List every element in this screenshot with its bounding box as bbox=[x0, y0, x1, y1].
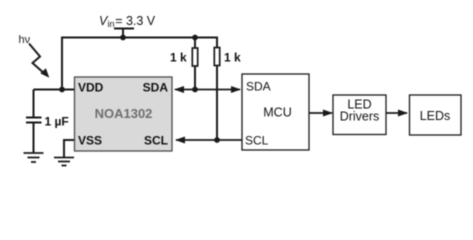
svg-text:1 µF: 1 µF bbox=[45, 115, 69, 129]
svg-text:Drivers: Drivers bbox=[340, 110, 380, 124]
ground (VSS) bbox=[54, 158, 74, 166]
arrowhead into LED Drivers bbox=[323, 110, 333, 117]
resistor R2 lead bottom bbox=[216, 66, 218, 141]
wire VSS bbox=[64, 140, 75, 158]
wire left vertical bbox=[61, 37, 63, 90]
svg-text:1 k: 1 k bbox=[170, 51, 187, 65]
node Vin junction bbox=[120, 35, 126, 41]
svg-text:SDA: SDA bbox=[246, 80, 271, 94]
svg-text:= 3.3 V: = 3.3 V bbox=[115, 14, 156, 28]
node R1 rail junction bbox=[192, 35, 198, 41]
resistor R2 body bbox=[214, 48, 219, 66]
light ray arrow bbox=[29, 44, 44, 73]
arrowhead SDA right bbox=[231, 86, 241, 93]
svg-text:MCU: MCU bbox=[263, 106, 291, 120]
svg-text:NOA1302: NOA1302 bbox=[95, 106, 153, 121]
arrowhead SDA left bbox=[174, 86, 184, 93]
arrowhead SCL left bbox=[175, 137, 185, 144]
wire top rail bbox=[62, 37, 217, 39]
svg-text:VSS: VSS bbox=[78, 134, 102, 148]
svg-text:VDD: VDD bbox=[78, 81, 104, 95]
resistor R1 lead bottom bbox=[194, 66, 196, 90]
svg-text:LEDs: LEDs bbox=[420, 109, 451, 123]
svg-text:SCL: SCL bbox=[245, 134, 269, 148]
resistor R1 body bbox=[192, 48, 197, 66]
wire SDA bbox=[175, 89, 240, 91]
resistor R1 lead top bbox=[194, 38, 196, 49]
node SDA junction bbox=[192, 87, 198, 93]
svg-text:in: in bbox=[108, 19, 115, 29]
LED Drivers box bbox=[333, 95, 386, 135]
resistor R2 lead top bbox=[216, 37, 218, 48]
svg-text:SCL: SCL bbox=[144, 134, 168, 148]
svg-text:1 k: 1 k bbox=[224, 51, 241, 65]
wire VDD bbox=[34, 89, 75, 91]
capacitor C1 plates bbox=[26, 118, 42, 123]
wire LED Drivers to LEDs bbox=[386, 112, 407, 114]
LEDs box bbox=[410, 95, 462, 135]
ground (capacitor) bbox=[24, 153, 44, 162]
arrowhead into LEDs bbox=[398, 110, 408, 117]
node VDD junction bbox=[59, 87, 65, 93]
capacitor C1 leads bbox=[33, 90, 35, 154]
wire SCL bbox=[176, 139, 242, 141]
IC U1 NOA1302 body bbox=[75, 77, 173, 151]
wire MCU to LED Drivers bbox=[309, 112, 332, 114]
power tap Vin bbox=[114, 29, 134, 38]
MCU box bbox=[242, 74, 309, 150]
svg-text:SDA: SDA bbox=[143, 81, 169, 95]
node SCL junction bbox=[214, 137, 220, 143]
